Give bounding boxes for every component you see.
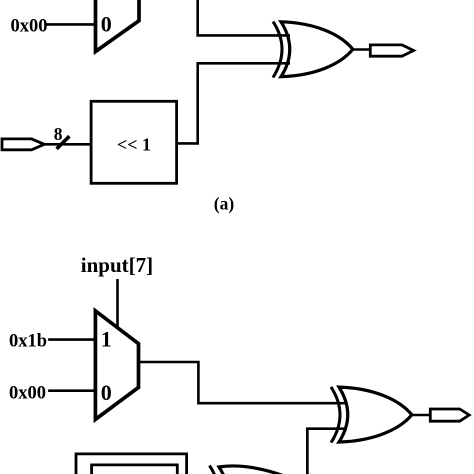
svg-text:(a): (a): [214, 193, 235, 213]
svg-text:8: 8: [54, 124, 63, 144]
wire input port to shift box: [44, 143, 91, 146]
mux M1 (top, cropped): [96, 0, 140, 52]
svg-text:0: 0: [101, 12, 112, 37]
output port symbol (fig a): [370, 45, 413, 56]
xor gate G3 (cropped at bottom): [210, 466, 292, 474]
wire 0x1b to mux M2: [48, 338, 95, 341]
wire G1 output: [353, 48, 370, 51]
bus-width slash: [57, 136, 70, 149]
wire 0x00 to mux M2: [48, 389, 95, 392]
wire G2 output: [412, 414, 430, 417]
wire 0x00 to mux M1: [46, 23, 96, 26]
output port symbol (fig b): [430, 409, 469, 421]
register box outer (cropped): [76, 454, 187, 474]
svg-text:0x00: 0x00: [11, 17, 48, 37]
svg-text:0: 0: [101, 380, 112, 405]
svg-text:0x1b: 0x1b: [9, 332, 47, 352]
mux M2: [95, 311, 138, 420]
wire shift box output to XOR G1 bottom input: [177, 63, 290, 143]
wire XOR G2 bottom input (from below): [307, 429, 347, 474]
svg-text:<< 1: << 1: [117, 135, 151, 155]
shift-left box B1: [91, 101, 177, 183]
wire select input[7] to mux M2: [116, 279, 119, 329]
wire down to gate G3 region: [306, 429, 309, 474]
xor gate G1: [273, 22, 353, 78]
svg-text:input[7]: input[7]: [81, 253, 153, 277]
wire mux M2 output to XOR G2 top input: [139, 362, 348, 403]
svg-text:0x00: 0x00: [9, 384, 46, 404]
svg-text:1: 1: [101, 327, 112, 352]
input port symbol (fig a): [2, 139, 44, 150]
wire mux M1 output to XOR G1 top input: [198, 0, 290, 35]
register box inner (cropped): [92, 465, 178, 474]
xor gate G2: [331, 387, 412, 443]
